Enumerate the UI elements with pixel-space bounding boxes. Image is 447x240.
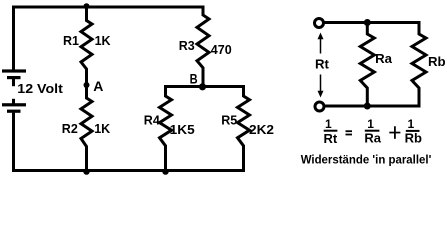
junction dot top of R1 branch: [84, 3, 90, 9]
wire node B rail: [164, 85, 245, 88]
node B junction dot: [199, 83, 206, 90]
Rt measurement arrow shaft lower: [320, 75, 322, 96]
svg-text:Rt: Rt: [315, 57, 330, 72]
svg-text:Widerstände 'in parallel': Widerstände 'in parallel': [301, 153, 432, 167]
battery BT1 cell 2 positive plate: [2, 103, 26, 106]
wire battery cell 1 stub: [12, 79, 15, 86]
svg-text:Ra: Ra: [375, 51, 393, 66]
junction dot Ra bottom: [364, 103, 371, 110]
terminal circle top (right diagram): [315, 19, 324, 28]
battery BT1 cell 2 negative plate: [7, 110, 21, 113]
wire top rail: [12, 6, 205, 9]
wire left side (top, battery to top rail): [12, 6, 15, 70]
formula equals sign: [346, 130, 353, 132]
wire left side (bottom, battery to bottom rail): [12, 113, 15, 172]
formula fraction bar (Ra): [365, 130, 380, 132]
junction dot Ra top: [364, 19, 371, 26]
wire battery cell 2 stub: [12, 99, 15, 104]
svg-text:1K5: 1K5: [170, 123, 195, 137]
formula plus sign: [389, 132, 400, 134]
svg-text:R5: R5: [221, 114, 237, 128]
Rt measurement arrowhead up: [318, 33, 324, 40]
svg-text:Ra: Ra: [364, 131, 381, 146]
svg-text:1: 1: [407, 117, 414, 131]
node A junction dot: [84, 82, 90, 88]
svg-text:470: 470: [211, 43, 232, 57]
Rt measurement arrow shaft upper: [320, 35, 322, 54]
wire bottom rail: [12, 169, 245, 172]
svg-text:Rt: Rt: [323, 131, 337, 146]
svg-text:2K2: 2K2: [249, 123, 274, 137]
svg-text:1K: 1K: [94, 122, 110, 136]
svg-text:Rb: Rb: [405, 131, 422, 146]
svg-text:R2: R2: [62, 122, 78, 136]
svg-text:1: 1: [325, 117, 332, 131]
Rt measurement arrowhead down: [318, 91, 324, 98]
battery BT1 cell 1 positive plate: [2, 69, 26, 72]
svg-text:A: A: [93, 78, 103, 94]
svg-text:Rb: Rb: [428, 54, 446, 69]
svg-text:1K: 1K: [95, 34, 111, 48]
svg-text:R3: R3: [179, 39, 195, 53]
svg-text:R1: R1: [63, 34, 79, 48]
svg-text:B: B: [190, 71, 198, 87]
junction dot R2 to bottom rail: [83, 168, 89, 174]
resistor R1: [81, 7, 92, 85]
resistor Ra: [360, 23, 374, 107]
formula fraction bar (Rt): [324, 130, 338, 132]
wire top rail (right diagram): [325, 21, 421, 24]
svg-text:12 Volt: 12 Volt: [17, 82, 63, 96]
junction dot R4 to bottom rail: [162, 168, 168, 174]
terminal circle bottom (right diagram): [315, 102, 324, 111]
resistor R2: [81, 85, 92, 171]
resistor R5: [238, 87, 250, 171]
svg-text:R4: R4: [144, 114, 160, 128]
resistor R4: [160, 87, 172, 171]
wire bottom rail (right diagram): [325, 105, 421, 108]
resistor R3: [197, 7, 209, 87]
svg-text:1: 1: [367, 117, 374, 131]
battery BT1 cell 1 negative plate: [7, 76, 21, 79]
resistor Rb with corner wires: [412, 23, 426, 107]
formula fraction bar (Rb): [406, 130, 420, 132]
